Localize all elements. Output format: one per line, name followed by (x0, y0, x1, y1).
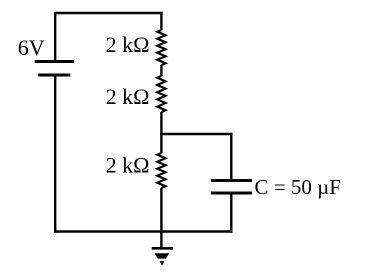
svg-text:2 kΩ: 2 kΩ (106, 84, 150, 109)
wire from capacitor bottom plate down to bottom wire (230, 193, 232, 233)
battery V1 bottom plate (short, negative) (38, 74, 70, 77)
wire bottom horizontal from left branch to right branch (54, 230, 233, 232)
battery V1 top plate (long, positive) (35, 60, 75, 63)
capacitor C1 top plate (211, 179, 252, 182)
capacitor C1 bottom plate (211, 192, 252, 195)
svg-text:6V: 6V (18, 35, 45, 60)
wire junction horizontal to capacitor branch (160, 133, 232, 135)
svg-text:2 kΩ: 2 kΩ (106, 153, 150, 178)
wire from junction node down to resistor R3 (160, 134, 162, 153)
svg-text:2 kΩ: 2 kΩ (106, 32, 150, 57)
wire right branch from junction down to capacitor top plate (230, 133, 232, 180)
wire between R1 and R2 (160, 65, 162, 76)
wire from battery positive terminal up to top-left corner (54, 13, 56, 62)
ground symbol bottom tip triangle (160, 261, 165, 266)
wire from top wire down to resistor R1 (160, 12, 162, 30)
resistor R3 2 kOhm zigzag (157, 153, 165, 188)
wire from R3 down through bottom wire to ground (160, 188, 162, 247)
svg-text:C = 50 µF: C = 50 µF (255, 175, 341, 199)
wire from battery negative terminal down to bottom wire (54, 75, 56, 233)
ground symbol top bar (152, 247, 173, 250)
resistor R1 2 kOhm zigzag (157, 30, 165, 65)
ground symbol middle trapezoid bar (155, 253, 170, 258)
wire top horizontal from left branch to middle branch (54, 12, 163, 14)
wire from R2 down to junction node (160, 112, 162, 135)
resistor R2 2 kOhm zigzag (157, 76, 165, 112)
